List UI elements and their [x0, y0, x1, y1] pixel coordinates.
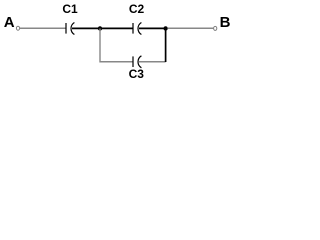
wire — [20, 27, 66, 29]
wire — [72, 27, 100, 29]
junction dot — [163, 26, 167, 30]
capacitor C2 — [129, 2, 145, 34]
wire — [99, 29, 101, 63]
junction dot — [98, 26, 102, 30]
svg-text:C2: C2 — [129, 2, 145, 16]
capacitor C3 — [129, 56, 145, 81]
wire — [165, 29, 167, 63]
svg-text:C3: C3 — [129, 67, 145, 81]
terminal B — [214, 26, 217, 30]
capacitor C1 — [62, 2, 78, 34]
svg-text:A: A — [4, 14, 15, 31]
terminal A — [16, 26, 19, 30]
wire — [139, 27, 166, 29]
wire — [168, 27, 214, 29]
wire — [100, 27, 133, 29]
wire — [139, 61, 166, 63]
svg-text:C1: C1 — [62, 2, 78, 16]
wire — [100, 61, 133, 63]
svg-text:B: B — [220, 14, 231, 31]
